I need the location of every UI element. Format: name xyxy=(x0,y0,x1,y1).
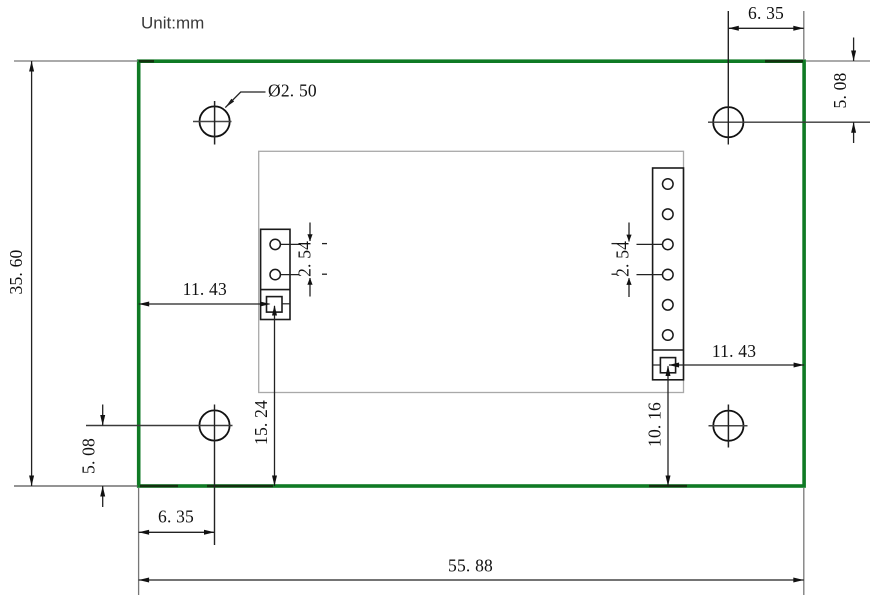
dimension 2.54 right header xyxy=(612,223,663,298)
dimension 6.35 top right xyxy=(728,3,804,60)
dimension 35.60 left xyxy=(6,61,138,486)
svg-text:5. 08: 5. 08 xyxy=(79,438,99,474)
svg-text:2. 54: 2. 54 xyxy=(295,241,315,277)
right header pin 4 xyxy=(663,239,674,250)
dimension 15.24 xyxy=(251,305,277,486)
mounting hole TL xyxy=(193,101,232,145)
dimension 10.16 xyxy=(645,366,671,487)
right header pin 7 xyxy=(663,330,674,341)
hole diameter leader O2.50 xyxy=(225,81,317,108)
svg-text:15. 24: 15. 24 xyxy=(251,400,271,445)
dimension 11.43 left xyxy=(139,279,290,306)
mounting hole BR xyxy=(709,405,748,448)
right header J2 body xyxy=(653,168,684,380)
svg-text:5. 08: 5. 08 xyxy=(830,72,850,108)
dimension 2.54 left header xyxy=(281,223,328,297)
svg-text:Unit:mm: Unit:mm xyxy=(141,14,204,33)
svg-text:11. 43: 11. 43 xyxy=(712,341,756,361)
dimension 5.08 bottom left xyxy=(79,405,106,508)
svg-text:6. 35: 6. 35 xyxy=(158,507,194,527)
right header pin 5 xyxy=(663,269,674,280)
svg-text:11. 43: 11. 43 xyxy=(183,279,227,299)
svg-text:35. 60: 35. 60 xyxy=(6,249,26,294)
svg-text:2. 54: 2. 54 xyxy=(613,241,633,277)
dimension 5.08 right xyxy=(806,38,870,144)
PCB outline xyxy=(139,61,804,486)
left header pin 3 xyxy=(270,269,280,279)
svg-text:6. 35: 6. 35 xyxy=(748,3,784,23)
svg-text:Ø2. 50: Ø2. 50 xyxy=(268,81,317,101)
svg-text:55. 88: 55. 88 xyxy=(448,555,493,575)
dimension 11.43 right xyxy=(653,341,805,368)
dimension 6.35 bottom xyxy=(139,488,215,595)
edge overlap marks xyxy=(139,61,803,486)
right header pin 2 xyxy=(663,179,674,190)
left header J1 body xyxy=(261,229,290,319)
module outline xyxy=(259,151,684,392)
right header pin 3 xyxy=(663,209,674,220)
left header pin 2 xyxy=(270,239,280,249)
svg-text:10. 16: 10. 16 xyxy=(645,402,665,447)
mounting hole BL xyxy=(86,405,233,546)
dimension 55.88 bottom xyxy=(139,488,804,595)
right header pin 1 pad (square) xyxy=(660,358,675,373)
unit label xyxy=(141,14,204,33)
mounting hole TR xyxy=(708,11,870,145)
right header pin 6 xyxy=(663,300,674,311)
left header pin 1 pad (square) xyxy=(267,297,283,313)
